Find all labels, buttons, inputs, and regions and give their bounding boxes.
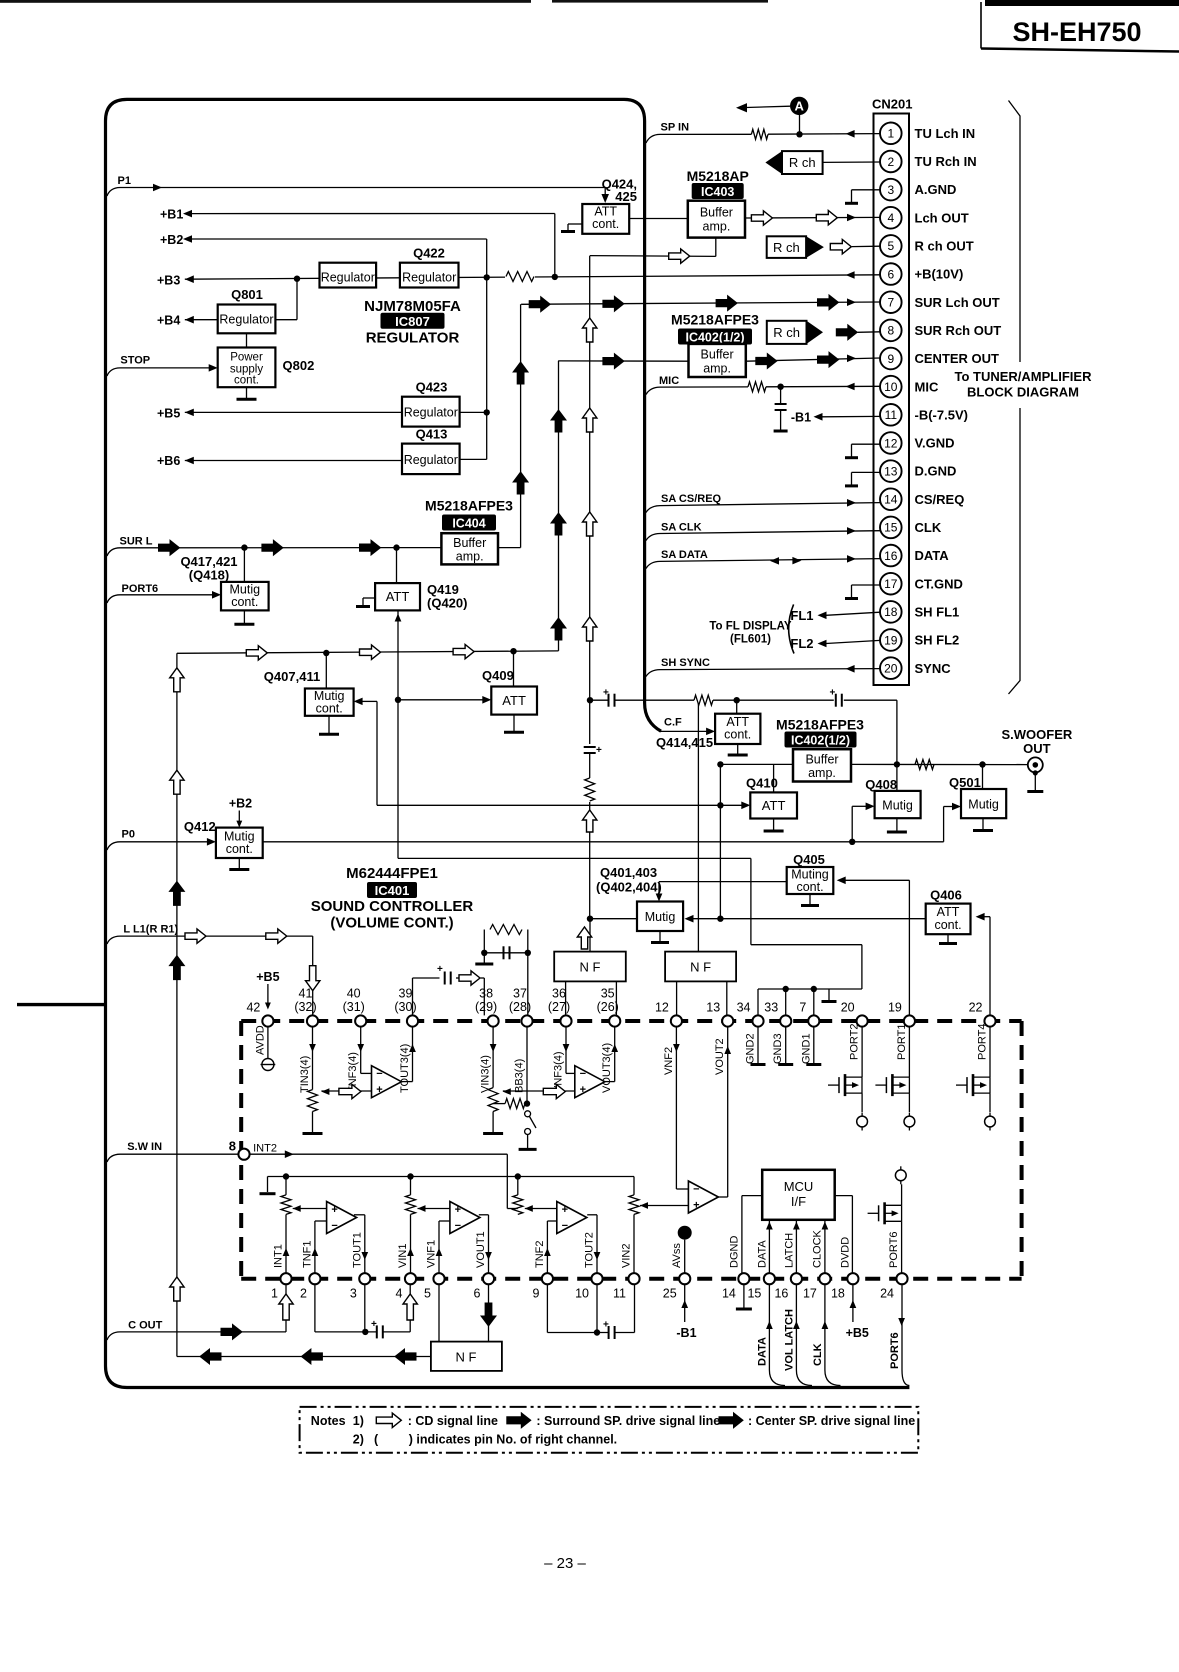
svg-text:(Q418): (Q418) xyxy=(189,568,229,583)
svg-text:(28): (28) xyxy=(509,1000,531,1014)
svg-text:IC401: IC401 xyxy=(375,883,410,898)
resistor on SP IN line xyxy=(751,129,768,139)
wire INT1 pin 1 up xyxy=(283,1214,290,1273)
resistor to S.WOOFER xyxy=(915,760,934,770)
svg-text:A.GND: A.GND xyxy=(915,182,957,197)
IC401 pin 11 VIN2 xyxy=(613,1244,640,1301)
node A xyxy=(736,97,808,135)
NF2 legs to pins 12 13 xyxy=(677,981,727,1015)
CN201 pin 18 SH FL1 xyxy=(880,601,959,623)
resistor BB3 xyxy=(505,1099,525,1109)
CN201 pin 8 SUR Rch OUT xyxy=(880,320,1001,342)
mutig cont Q407 xyxy=(305,653,354,716)
svg-text:CN201: CN201 xyxy=(872,97,912,112)
wire P1 xyxy=(107,184,609,203)
svg-text:+B(10V): +B(10V) xyxy=(915,267,964,282)
wire U1a output to TOUT3 pin 39 xyxy=(401,1027,415,1082)
wire VIN1 pin 4 up xyxy=(407,1214,414,1273)
page number xyxy=(544,1555,586,1572)
CN201 pin 11 -B(-7.5V) xyxy=(880,404,968,426)
svg-text:VNF2: VNF2 xyxy=(663,1047,675,1075)
regulator Q423 xyxy=(402,380,460,427)
svg-text:17: 17 xyxy=(803,1287,817,1301)
wire Q405 left to Q401 mutig xyxy=(656,882,787,902)
svg-text:40: 40 xyxy=(347,987,361,1001)
wire TNF2-TOUT2 coupling cap to VIN2 xyxy=(547,1284,634,1339)
wire -B(-7.5V) pin 11 xyxy=(791,410,880,424)
svg-text:VOUT3(4): VOUT3(4) xyxy=(601,1043,613,1093)
svg-text:Q414,415: Q414,415 xyxy=(656,735,713,750)
svg-text:+: + xyxy=(437,964,443,975)
wire CLK bus exit pin 17 xyxy=(812,1284,841,1385)
ground stubs GND2 GND3 GND1 xyxy=(751,1027,822,1065)
svg-text:42: 42 xyxy=(246,1001,260,1015)
svg-text:S.WOOFER: S.WOOFER xyxy=(1002,727,1073,742)
ground below Q406 xyxy=(939,934,957,943)
svg-text:INT1: INT1 xyxy=(273,1244,285,1268)
svg-text:Q412: Q412 xyxy=(184,819,216,834)
MCU pin name labels xyxy=(729,1229,901,1268)
svg-text:M5218AP: M5218AP xyxy=(687,168,749,184)
IC401 pin 8 INT2 xyxy=(229,1139,277,1160)
svg-text:N F: N F xyxy=(456,1350,477,1365)
svg-text:425: 425 xyxy=(615,189,637,204)
bus stub on left edge xyxy=(17,1003,105,1006)
wire left riser from NF return xyxy=(169,653,184,1356)
svg-text:+: + xyxy=(830,688,836,699)
wire into Q406 right from PORT4 xyxy=(976,913,990,1015)
IC401 labels M62444FPE1 SOUND CONTROLLER xyxy=(311,865,474,932)
IC401 pin 6 VOUT1 xyxy=(474,1231,495,1300)
svg-text:Regulator: Regulator xyxy=(321,271,375,285)
svg-text:REGULATOR: REGULATOR xyxy=(366,330,460,347)
wire feedback line over IC402b xyxy=(587,697,897,764)
svg-text:: CD signal line: : CD signal line xyxy=(408,1414,498,1428)
svg-text:35: 35 xyxy=(601,987,615,1001)
svg-text:C.F: C.F xyxy=(664,717,682,729)
svg-text:L L1(R R1): L L1(R R1) xyxy=(123,924,178,936)
svg-text:−: − xyxy=(331,1220,337,1232)
svg-text:7: 7 xyxy=(887,296,894,310)
FL display brace and labels xyxy=(709,604,794,653)
CN201 pin 10 MIC xyxy=(880,376,939,398)
IC401 pin 15 xyxy=(747,1273,775,1300)
svg-text:cont.: cont. xyxy=(226,842,253,856)
wire +B5 into pin 42 xyxy=(256,970,279,1010)
resistor of RC network xyxy=(490,925,522,935)
torn top edge strips xyxy=(0,0,768,3)
svg-text:(29): (29) xyxy=(475,1000,497,1014)
terminal below PORT2 switch xyxy=(857,1113,868,1131)
wire SUR Lch OUT to pin 7 xyxy=(521,295,880,312)
svg-text:Notes: Notes xyxy=(311,1414,346,1428)
svg-text:SH-EH750: SH-EH750 xyxy=(1012,17,1141,47)
svg-text:Power: Power xyxy=(230,352,263,364)
svg-text:D.GND: D.GND xyxy=(915,464,957,479)
svg-text:16: 16 xyxy=(774,1287,788,1301)
wire NF3 return to left riser xyxy=(177,1349,431,1364)
svg-text:: Surround SP. drive signal li: : Surround SP. drive signal line xyxy=(536,1414,720,1428)
svg-text:TU Lch IN: TU Lch IN xyxy=(915,126,976,141)
switch below BB3 xyxy=(519,1111,537,1150)
regulator box (IC807 half) xyxy=(320,263,377,288)
ground at pin 13 D.GND xyxy=(845,472,880,486)
svg-text:PORT6: PORT6 xyxy=(122,583,159,595)
svg-text:BLOCK DIAGRAM: BLOCK DIAGRAM xyxy=(967,385,1079,400)
label Q412 +B2 xyxy=(184,797,252,835)
wire +B5 into pin 18 xyxy=(846,1284,869,1340)
svg-text:13: 13 xyxy=(706,1001,720,1015)
svg-text:Q422: Q422 xyxy=(413,246,445,261)
svg-text:IC402(1/2): IC402(1/2) xyxy=(791,734,850,748)
CN201 pin 9 CENTER OUT xyxy=(880,348,999,370)
svg-text:41: 41 xyxy=(299,987,313,1001)
IC401 pin 41 TIN3(4) xyxy=(294,987,318,1094)
CN201 pin 13 D.GND xyxy=(880,460,956,482)
svg-text:(Q420): (Q420) xyxy=(427,596,467,611)
wire TNF2 pin 9 to U3c minus xyxy=(544,1221,557,1273)
svg-text:3: 3 xyxy=(887,183,894,197)
svg-text:+B5: +B5 xyxy=(157,406,180,420)
svg-text:cont.: cont. xyxy=(316,702,343,716)
op-amp IC402a buffer amp xyxy=(689,344,746,377)
svg-text:ATT: ATT xyxy=(386,589,410,604)
op-amp IC404 buffer amp M5218AFPE3 xyxy=(425,498,513,565)
ground below Q410 xyxy=(764,819,784,832)
svg-text:To FL DISPLAY: To FL DISPLAY xyxy=(709,621,792,633)
svg-text:−: − xyxy=(562,1220,568,1232)
svg-text:CT.GND: CT.GND xyxy=(915,576,963,591)
svg-text:SA CS/REQ: SA CS/REQ xyxy=(661,493,722,505)
svg-text:VOL LATCH: VOL LATCH xyxy=(784,1309,796,1371)
wire CD signal line to IC404 stage xyxy=(177,361,566,660)
wire MIC to pin 10 xyxy=(646,383,880,395)
CN201 pin 2 TU Rch IN xyxy=(880,151,977,173)
regulator Q413 xyxy=(402,427,460,475)
NF1 legs to pins 36 35 xyxy=(566,981,617,1015)
CN201 pin 1 TU Lch IN xyxy=(880,123,975,145)
label S.WOOFER OUT xyxy=(1002,727,1073,756)
svg-text:Q801: Q801 xyxy=(231,287,263,302)
svg-text:BB3(4): BB3(4) xyxy=(514,1059,526,1093)
svg-text:FL2: FL2 xyxy=(790,636,813,651)
IC401 pin 36 VNF3(4) xyxy=(548,987,572,1094)
IC402 labels (sub) xyxy=(776,717,864,748)
op-amp U3b xyxy=(450,1202,480,1234)
wire SA CS/REQ to pin 14 xyxy=(646,493,880,513)
svg-text:GND2: GND2 xyxy=(745,1033,757,1064)
CN201 pin 19 SH FL2 xyxy=(880,629,959,651)
svg-text:Q401,403: Q401,403 xyxy=(600,865,657,880)
op-amp U2 (VNF2/VOUT2) xyxy=(688,1181,718,1213)
ground below ATT cont Q414 xyxy=(728,744,748,755)
IC401 pin 2 TNF1 xyxy=(300,1241,321,1301)
ATT cont Q424,425 xyxy=(582,204,629,234)
svg-text:MIC: MIC xyxy=(915,379,939,394)
CN201 pin 14 CS/REQ xyxy=(880,488,964,510)
svg-text:Regulator: Regulator xyxy=(404,453,458,467)
CN201 pin 12 V.GND xyxy=(880,432,954,454)
wire TNF3 pin 40 to U1a minus xyxy=(357,1027,371,1074)
svg-text:DGND: DGND xyxy=(729,1236,741,1268)
svg-text:VOUT2: VOUT2 xyxy=(714,1038,726,1075)
wire TNF1 pin 2 to U3a minus xyxy=(312,1221,327,1273)
svg-text:11: 11 xyxy=(613,1287,626,1301)
wire wiper U3b xyxy=(418,1205,450,1212)
svg-text:Q501: Q501 xyxy=(949,775,981,790)
svg-text:Q423: Q423 xyxy=(416,380,448,395)
svg-text:14: 14 xyxy=(722,1287,736,1301)
IC401 pin 22 PORT4 xyxy=(969,1001,996,1061)
svg-text:+B1: +B1 xyxy=(160,208,183,222)
wire SP IN to pin 1 xyxy=(646,130,880,143)
svg-text:IC807: IC807 xyxy=(395,314,430,329)
svg-text:TNF2: TNF2 xyxy=(534,1241,546,1269)
terminal below PORT1 switch xyxy=(904,1113,915,1131)
svg-text:MIC: MIC xyxy=(659,375,679,387)
svg-text:N F: N F xyxy=(690,960,711,975)
svg-text:AVDD: AVDD xyxy=(254,1025,266,1055)
wire U2 output to VOUT2 pin 13 xyxy=(716,1027,731,1197)
svg-text:ATT: ATT xyxy=(502,693,526,708)
op-amp U3a xyxy=(327,1202,357,1234)
muting cont Q405 xyxy=(787,852,834,894)
wire wiper U3c xyxy=(525,1205,557,1212)
ATT cont Q414,415 xyxy=(715,714,760,744)
svg-text:33: 33 xyxy=(764,1001,778,1015)
wire U3a output to TOUT1 pin 3 xyxy=(354,1215,368,1273)
wire into Q405 right from PORT6 riser xyxy=(837,877,910,1016)
transistor Q (PORT6 switch) xyxy=(868,1184,902,1273)
svg-text:SH FL2: SH FL2 xyxy=(915,633,960,648)
wire ATT cont to IC403 buffer xyxy=(629,218,688,220)
svg-text:R ch: R ch xyxy=(773,325,800,340)
IC401 pin 25 AVss xyxy=(663,1243,691,1301)
svg-text:Buffer: Buffer xyxy=(701,348,734,362)
svg-text:S.W IN: S.W IN xyxy=(127,1141,162,1153)
wire VIN2 pin 11 up xyxy=(633,1214,635,1273)
svg-text:GND3: GND3 xyxy=(772,1033,784,1064)
CN201 pin 16 DATA xyxy=(880,545,949,567)
ground below Q501 xyxy=(973,818,993,830)
svg-text:SA CLK: SA CLK xyxy=(661,521,702,533)
CN201 pin 17 CT.GND xyxy=(880,573,963,595)
wire bias rail with ground xyxy=(260,1173,635,1195)
terminal below PORT4 switch xyxy=(985,1113,996,1131)
resistor TNF2 xyxy=(513,1177,523,1215)
svg-text:R ch: R ch xyxy=(773,240,800,255)
ground below Q412 xyxy=(229,858,249,870)
wire R ch OUT feed xyxy=(590,238,716,264)
wire PORT6 bus exit pin 24 xyxy=(889,1284,909,1385)
CD-section boundary (rounded border) xyxy=(106,99,910,1387)
svg-text:VOUT1: VOUT1 xyxy=(475,1231,487,1268)
wire VNF2 pin 12 to op-amp U2 minus xyxy=(673,1027,688,1189)
label SP IN xyxy=(661,122,690,134)
svg-text:5: 5 xyxy=(424,1287,431,1301)
svg-text:DVDD: DVDD xyxy=(840,1237,852,1268)
svg-text:(26): (26) xyxy=(597,1000,619,1014)
wire SUR L xyxy=(107,535,441,556)
terminal above PORT6 switch xyxy=(895,1166,906,1184)
wire U3c output to TOUT2 pin 10 xyxy=(587,1215,600,1273)
wire P0 xyxy=(107,829,216,851)
svg-text:10: 10 xyxy=(884,380,898,394)
wire +B6 from Q413 xyxy=(157,454,487,468)
svg-text:Buffer: Buffer xyxy=(453,536,486,550)
svg-text:IC402(1/2): IC402(1/2) xyxy=(685,331,744,345)
svg-text:I/F: I/F xyxy=(791,1194,806,1209)
mutig Q501 xyxy=(949,765,1006,819)
wire DATA bus exit pin 15 xyxy=(757,1284,786,1385)
wire MCU DGND to pin 14 xyxy=(742,1196,762,1274)
svg-text:(30): (30) xyxy=(394,1000,416,1014)
svg-text:To TUNER/AMPLIFIER: To TUNER/AMPLIFIER xyxy=(955,369,1093,384)
resistor on MIC line xyxy=(748,382,766,392)
svg-text:12: 12 xyxy=(655,1001,669,1015)
resistor VIN3 xyxy=(488,1088,498,1112)
wire U1b output to VOUT3 pin 35 xyxy=(605,1027,618,1082)
ground below pin 14 xyxy=(736,1284,752,1309)
resistor TIN3 xyxy=(308,1090,318,1112)
svg-text:) indicates pin No. of right c: ) indicates pin No. of right channel. xyxy=(409,1432,617,1446)
wire VNF1 pin 5 to U3b minus xyxy=(436,1221,450,1273)
svg-text:SUR Rch OUT: SUR Rch OUT xyxy=(915,323,1002,338)
ATT Q409 xyxy=(482,651,537,714)
wire +B5 from Q423 xyxy=(157,406,487,420)
svg-text:2: 2 xyxy=(887,155,894,169)
mutig cont Q412 xyxy=(216,811,263,859)
ground left of ATT cont xyxy=(561,224,582,232)
svg-text:+B5: +B5 xyxy=(846,1326,869,1340)
svg-text:8: 8 xyxy=(229,1139,236,1154)
svg-text:Regulator: Regulator xyxy=(404,406,458,420)
svg-text:Q408: Q408 xyxy=(865,777,897,792)
label MIC xyxy=(659,375,679,387)
IC401 pin 5 VNF1 xyxy=(424,1240,445,1301)
wire VNF3 pin 36 to U1b minus xyxy=(563,1027,575,1074)
svg-text:36: 36 xyxy=(552,987,566,1001)
wire FL2 from pin 19 xyxy=(790,636,880,651)
svg-text:PORT6: PORT6 xyxy=(889,1332,901,1369)
wire branch to ATT Q409 xyxy=(398,696,491,704)
node A junction dot xyxy=(796,131,802,137)
IC401 pin 4 VIN1 xyxy=(396,1244,417,1301)
ground left of ATT Q419 xyxy=(356,598,375,607)
svg-text:PORT6: PORT6 xyxy=(888,1232,900,1268)
ATT Q419 xyxy=(375,548,467,611)
svg-text:VIN2: VIN2 xyxy=(621,1244,633,1268)
op-amp U1b (tone R) xyxy=(575,1066,605,1098)
wire IC404 output up to pin 7 line xyxy=(498,304,528,547)
svg-text:+: + xyxy=(580,1084,586,1096)
svg-text:-B(-7.5V): -B(-7.5V) xyxy=(915,407,968,422)
wire BB3 pin 37 chain with switch xyxy=(493,1027,530,1107)
svg-text:−: − xyxy=(376,1068,382,1080)
svg-text:14: 14 xyxy=(884,493,898,507)
regulator Q801 xyxy=(218,287,276,333)
svg-text:16: 16 xyxy=(884,549,898,563)
resistor INT1 xyxy=(281,1177,291,1215)
wire GND2 GND3 GND1 tie above xyxy=(758,986,862,1016)
wire CENTER OUT to pin 9 xyxy=(558,352,880,369)
svg-text:19: 19 xyxy=(888,1001,902,1015)
svg-text:10: 10 xyxy=(575,1287,589,1301)
IC401 pin 10 TOUT2 xyxy=(575,1232,603,1300)
svg-text:Lch OUT: Lch OUT xyxy=(915,210,969,225)
svg-text:2: 2 xyxy=(300,1287,307,1301)
svg-text:CLOCK: CLOCK xyxy=(812,1229,824,1268)
wire C.F from border xyxy=(656,717,715,751)
label Q424,425 xyxy=(602,177,637,205)
svg-text:LATCH: LATCH xyxy=(784,1233,796,1268)
IC401 pin 18 xyxy=(831,1273,859,1300)
svg-text:SYNC: SYNC xyxy=(915,661,952,676)
IC401 pin 35 VOUT3(4) xyxy=(597,987,621,1094)
IC401 pin 20 PORT2 xyxy=(841,1001,868,1061)
wire into Q401 left xyxy=(587,916,637,922)
svg-text:15: 15 xyxy=(884,521,898,535)
wire wiper to op-amp U1a plus xyxy=(321,1084,371,1098)
svg-text:+: + xyxy=(376,1084,382,1096)
svg-text:TOUT3(4): TOUT3(4) xyxy=(399,1044,411,1093)
IC401 pin 37 BB3(4) xyxy=(509,987,533,1094)
ground at pin 17 CT.GND xyxy=(845,585,880,599)
wire +B3 / +B(10V) chain to pin 6 xyxy=(157,271,880,287)
svg-text:9: 9 xyxy=(532,1287,539,1301)
CN201 pin 6 +B(10V) xyxy=(880,263,963,285)
svg-text:M5218AFPE3: M5218AFPE3 xyxy=(776,717,864,733)
wire VIN3 pin 38 down xyxy=(490,1027,497,1088)
svg-text:VNF1: VNF1 xyxy=(426,1240,438,1268)
svg-text:cont.: cont. xyxy=(724,728,751,742)
op-amp IC402b buffer amp xyxy=(793,749,851,781)
svg-text:+B2: +B2 xyxy=(229,797,252,811)
svg-text:SH FL1: SH FL1 xyxy=(915,604,960,619)
svg-text:V.GND: V.GND xyxy=(915,436,955,451)
resistor on subwoofer column xyxy=(582,778,597,802)
ATT Q410 xyxy=(746,764,797,818)
svg-text:Mutig: Mutig xyxy=(645,910,676,924)
wire Lch OUT to pin 4 xyxy=(745,211,880,226)
svg-text:1: 1 xyxy=(887,127,894,141)
svg-text:-B1: -B1 xyxy=(791,410,811,424)
svg-text:R ch OUT: R ch OUT xyxy=(915,239,974,254)
svg-text:cont.: cont. xyxy=(796,880,823,894)
svg-text:SOUND CONTROLLER: SOUND CONTROLLER xyxy=(311,898,474,915)
wire DATA to MCU xyxy=(766,1220,773,1273)
capacitor C.F right xyxy=(830,688,842,707)
title block SH-EH750 xyxy=(981,0,1179,52)
resistor VIN1 xyxy=(406,1177,416,1215)
wire +B2 xyxy=(160,233,487,460)
svg-text:DATA: DATA xyxy=(915,548,950,563)
svg-text:38: 38 xyxy=(479,987,493,1001)
IC401 pin 9 TNF2 xyxy=(532,1241,553,1301)
wire TNF1-TOUT1 coupling cap to VIN1 xyxy=(315,1284,418,1338)
wire -B1 into pin 25 xyxy=(676,1284,696,1340)
svg-text:amp.: amp. xyxy=(456,550,484,564)
op-amp U1a (tone L) xyxy=(372,1066,402,1098)
svg-text:IC403: IC403 xyxy=(701,185,734,199)
ground below Q417 xyxy=(234,610,254,624)
wire INT2 to op-amp U3c plus xyxy=(250,1150,518,1208)
wire subwoofer column xyxy=(583,256,597,919)
svg-text:+: + xyxy=(331,1204,337,1216)
wire wiper U2 from VIN2 xyxy=(640,1202,688,1209)
svg-text:(Q402,404): (Q402,404) xyxy=(596,880,662,895)
svg-text:FL1: FL1 xyxy=(790,608,813,623)
